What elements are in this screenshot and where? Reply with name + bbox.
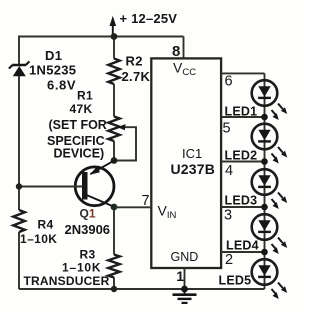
- node R1 wiper/emitter: [111, 157, 118, 164]
- node LED2/LED3: [261, 158, 268, 165]
- svg-text:1: 1: [176, 268, 184, 284]
- node LED3/LED4: [261, 204, 268, 211]
- ground symbol: [184, 289, 186, 294]
- svg-text:LED4: LED4: [226, 238, 259, 252]
- node R3 bottom: [111, 286, 117, 292]
- node top supply: [111, 33, 118, 40]
- LED3 emission arrows: [278, 193, 283, 199]
- svg-text:Q1: Q1: [80, 207, 96, 221]
- node LED1/LED2: [261, 114, 268, 121]
- svg-text:2.7K: 2.7K: [122, 69, 151, 84]
- node collector: [111, 204, 118, 211]
- LED5 emission arrows: [278, 283, 283, 289]
- svg-text:2: 2: [225, 252, 233, 268]
- wire pin4: [221, 161, 265, 163]
- potentiometer R1: [108, 117, 119, 142]
- svg-text:R3: R3: [80, 248, 96, 262]
- node LED4/LED5: [261, 249, 268, 256]
- svg-text:6.8V: 6.8V: [47, 78, 76, 93]
- LED1: [252, 80, 278, 106]
- LED5: [252, 259, 278, 285]
- wire pin1 stub: [184, 268, 186, 289]
- svg-text:3: 3: [224, 208, 232, 224]
- svg-text:(SET FOR: (SET FOR: [49, 118, 107, 132]
- svg-text:47K: 47K: [70, 102, 93, 116]
- op IC1 U237B box: [151, 58, 221, 268]
- wire pin8 stub: [183, 37, 185, 59]
- svg-text:5: 5: [223, 121, 231, 137]
- svg-text:TRANSDUCER: TRANSDUCER: [24, 274, 110, 288]
- svg-text:IC1: IC1: [182, 146, 202, 161]
- LED2 emission arrows: [278, 147, 283, 153]
- wire pin5: [221, 116, 265, 118]
- wire Q1 emitter: [91, 160, 115, 174]
- LED2: [252, 124, 278, 150]
- LED3: [252, 169, 278, 195]
- resistor R3: [108, 255, 119, 278]
- svg-text:LED1: LED1: [225, 104, 258, 118]
- R1 wiper arrow: [114, 127, 136, 160]
- svg-text:D1: D1: [45, 48, 62, 63]
- resistor R2: [108, 59, 119, 85]
- svg-text:4: 4: [225, 163, 233, 179]
- wire center rail: [113, 37, 115, 290]
- supply arrow: [112, 25, 114, 35]
- LED4: [252, 214, 278, 240]
- svg-text:+ 12–25V: + 12–25V: [120, 11, 178, 26]
- wire pin7: [114, 206, 151, 208]
- svg-text:1N5235: 1N5235: [29, 62, 76, 77]
- svg-text:R2: R2: [126, 54, 143, 69]
- node base on left rail: [16, 183, 22, 189]
- wire pin6: [221, 72, 265, 74]
- LED4 emission arrows: [278, 238, 283, 244]
- wire pin3: [221, 206, 265, 208]
- svg-text:R4: R4: [38, 218, 54, 232]
- zener diode D1: [12, 64, 26, 67]
- node pin1/ground: [181, 286, 188, 293]
- wire pin2: [221, 251, 265, 253]
- wire left rail: [18, 36, 20, 290]
- svg-text:6: 6: [225, 74, 233, 90]
- svg-text:GND: GND: [171, 250, 199, 264]
- svg-text:2N3906: 2N3906: [65, 222, 111, 237]
- svg-text:LED2: LED2: [225, 149, 258, 163]
- transistor Q1: [75, 167, 114, 206]
- wire bottom ground rail: [19, 288, 265, 290]
- wire Q1 base: [19, 186, 83, 188]
- svg-text:DEVICE): DEVICE): [54, 147, 105, 161]
- svg-text:LED5: LED5: [219, 273, 252, 287]
- svg-text:LED3: LED3: [225, 193, 258, 207]
- wire Q1 collector: [87, 195, 115, 207]
- svg-text:R1: R1: [77, 89, 93, 103]
- resistor R4: [13, 210, 25, 232]
- svg-text:8: 8: [172, 43, 180, 60]
- LED1 emission arrows: [278, 104, 283, 110]
- wire top rail: [19, 36, 184, 38]
- svg-text:U237B: U237B: [171, 161, 216, 177]
- svg-text:1–10K: 1–10K: [62, 261, 101, 275]
- svg-text:1–10K: 1–10K: [20, 232, 57, 246]
- wire LED column: [264, 73, 266, 289]
